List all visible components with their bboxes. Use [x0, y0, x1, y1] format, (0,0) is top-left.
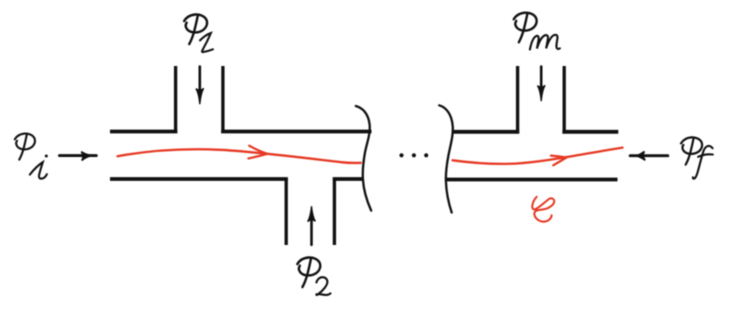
- label P2 subscript 2: [316, 277, 330, 295]
- branch P2 left vertical: [285, 178, 288, 246]
- arrow Pf (inlet, pointing left): [630, 151, 668, 160]
- red arrowhead right: [551, 156, 567, 166]
- arrow Pm (down): [537, 67, 545, 102]
- branch P1 right vertical: [221, 66, 224, 133]
- arrow P1 (down): [196, 67, 204, 105]
- red trajectory C left segment: [118, 149, 361, 163]
- ellipsis dots: [399, 153, 428, 157]
- label Pm script P: [514, 13, 537, 43]
- label P1 subscript 1: [200, 33, 213, 52]
- break mark left: [356, 106, 371, 211]
- red arrowhead left: [248, 146, 267, 159]
- wire bottom-mid stub: [333, 177, 363, 181]
- branch P1 left vertical: [174, 66, 177, 133]
- label P2 script P: [297, 257, 320, 287]
- arrow P2 (up): [308, 206, 316, 245]
- label C red script: [532, 197, 554, 222]
- label Pi subscript i: [30, 155, 48, 179]
- wire top-left wall: [110, 130, 177, 134]
- branch P2 right vertical: [333, 178, 336, 246]
- label Pf script P: [681, 137, 702, 164]
- arrow Pi (inlet, pointing right): [60, 152, 97, 161]
- branch Pm right vertical: [563, 66, 566, 133]
- label Pi script P: [15, 134, 35, 160]
- label Pm subscript m: [530, 35, 560, 50]
- label P1 script P: [184, 14, 207, 44]
- label Pf subscript f: [693, 146, 713, 179]
- red trajectory C right segment: [453, 148, 623, 164]
- branch Pm left vertical: [516, 66, 519, 133]
- wire bottom-left wall: [110, 177, 288, 181]
- wire top-right wall segment B: [562, 130, 618, 134]
- wire top-right wall segment A: [452, 130, 519, 134]
- wire top-mid wall: [221, 130, 371, 134]
- break mark right: [439, 105, 453, 212]
- wire bottom-right wall: [447, 178, 618, 182]
